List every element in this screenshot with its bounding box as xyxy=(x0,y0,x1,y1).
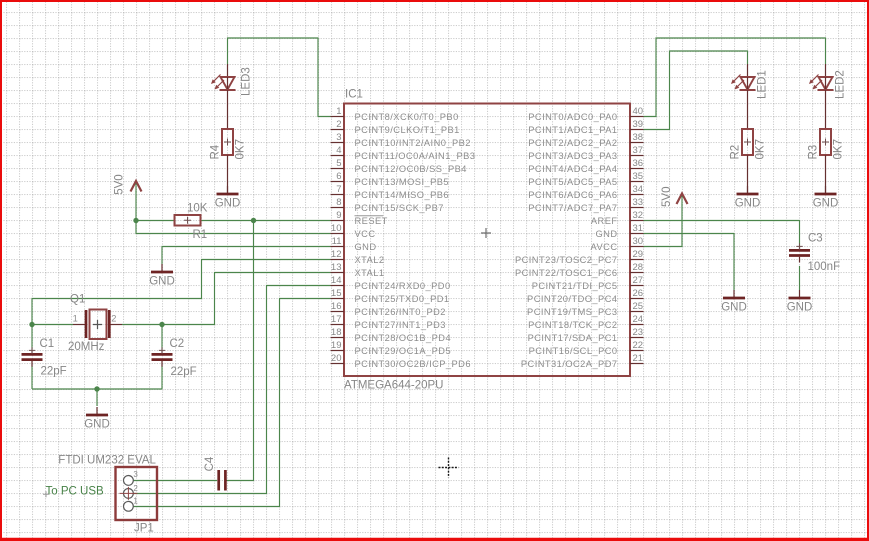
svg-text:2: 2 xyxy=(336,119,341,130)
IC1 pin 1 PCINT8/XCK0/T0_PB0 xyxy=(331,106,459,122)
svg-text:10K: 10K xyxy=(187,203,208,215)
svg-text:34: 34 xyxy=(633,184,644,195)
crystal Q1 20MHz xyxy=(68,294,122,354)
wire crystal pin2 to C2 xyxy=(122,324,162,326)
svg-text:PCINT9/CLKO/T1_PB1: PCINT9/CLKO/T1_PB1 xyxy=(355,125,460,135)
connector JP1 pin header xyxy=(116,467,158,535)
svg-text:PCINT22/TOSC1_PC6: PCINT22/TOSC1_PC6 xyxy=(515,268,618,278)
resistor R3 0K7 vertical xyxy=(808,129,845,194)
svg-text:C2: C2 xyxy=(170,338,185,350)
wire C1 top xyxy=(31,325,33,351)
svg-text:AREF: AREF xyxy=(591,216,618,226)
wire crystal ground rail xyxy=(32,388,162,390)
wire JP1 pin3 to C4 xyxy=(134,480,218,482)
svg-text:PCINT4/ADC4_PA4: PCINT4/ADC4_PA4 xyxy=(528,164,617,174)
IC1 pin 28 PCINT22/TOSC1_PC6 xyxy=(515,262,644,278)
svg-text:PCINT30/OC2B/ICP_PD6: PCINT30/OC2B/ICP_PD6 xyxy=(355,359,471,369)
svg-text:23: 23 xyxy=(633,327,644,338)
IC1 pin 29 PCINT23/TOSC2_PC7 xyxy=(515,249,644,265)
svg-text:JP1: JP1 xyxy=(134,523,154,535)
IC1 pin 24 PCINT18/TCK_PC2 xyxy=(528,314,643,330)
IC1 pin 10 VCC xyxy=(331,223,376,239)
svg-text:To PC USB: To PC USB xyxy=(46,486,104,498)
svg-text:PCINT21/TDI_PC5: PCINT21/TDI_PC5 xyxy=(532,281,618,291)
capacitor C4 horizontal xyxy=(204,456,227,490)
svg-text:36: 36 xyxy=(633,158,644,169)
IC1 pin 20 PCINT30/OC2B/ICP_PD6 xyxy=(331,353,471,369)
wire net PA1: IC1 pin39 to LED1 xyxy=(644,51,748,130)
svg-text:24: 24 xyxy=(633,314,644,325)
svg-text:PCINT6/ADC6_PA6: PCINT6/ADC6_PA6 xyxy=(528,190,617,200)
svg-text:1: 1 xyxy=(133,496,138,505)
svg-text:3: 3 xyxy=(336,132,341,143)
wire C2 top xyxy=(161,325,163,351)
IC1 pin 18 PCINT28/OC1B_PD4 xyxy=(331,327,452,343)
IC1 pin 33 PCINT7/ADC7_PA7 xyxy=(528,197,643,213)
IC1 pin 14 PCINT24/RXD0_PD0 xyxy=(331,275,451,291)
svg-text:PCINT16/SCL_PC0: PCINT16/SCL_PC0 xyxy=(529,346,618,356)
resistor R1 10K horizontal xyxy=(175,203,208,242)
svg-text:33: 33 xyxy=(633,197,644,208)
IC1 pin 27 PCINT21/TDI_PC5 xyxy=(532,275,644,291)
IC1 pin 2 PCINT9/CLKO/T1_PB1 xyxy=(331,119,460,135)
IC1 pin 21 PCINT31/OC2A_PD7 xyxy=(521,353,644,369)
IC1 pin 7 PCINT14/MISO_PB6 xyxy=(331,184,450,200)
svg-text:PCINT5/ADC5_PA5: PCINT5/ADC5_PA5 xyxy=(528,177,617,187)
svg-text:1: 1 xyxy=(73,314,79,324)
svg-text:17: 17 xyxy=(331,314,342,325)
wire net RESET: vertical to C4 xyxy=(227,221,254,481)
capacitor C3 100nF xyxy=(789,233,840,274)
IC1 pin 17 PCINT27/INT1_PD3 xyxy=(331,314,446,330)
svg-text:100nF: 100nF xyxy=(808,261,841,273)
resistor R4 0K7 vertical xyxy=(210,129,247,194)
svg-text:GND: GND xyxy=(735,198,761,210)
svg-text:15: 15 xyxy=(331,288,342,299)
supply symbol 5V0 xyxy=(661,187,688,207)
svg-text:PCINT8/XCK0/T0_PB0: PCINT8/XCK0/T0_PB0 xyxy=(355,112,459,122)
svg-text:38: 38 xyxy=(633,132,644,143)
svg-text:0K7: 0K7 xyxy=(235,139,247,159)
IC1 pin 32 AREF xyxy=(591,210,644,226)
wire net RESET: R1 to IC1 pin9 xyxy=(201,220,331,222)
svg-text:13: 13 xyxy=(331,262,342,273)
wire net XTAL1: IC1 pin13 to crystal pin2 xyxy=(162,273,331,325)
wire net RXD: IC1 pin14 to JP1 pin2 xyxy=(134,286,331,494)
wire net AREF: IC1 pin32 to C3 xyxy=(644,221,800,247)
svg-text:PCINT0/ADC0_PA0: PCINT0/ADC0_PA0 xyxy=(528,112,617,122)
IC1 pin 9 RESET xyxy=(331,210,388,226)
svg-text:IC1: IC1 xyxy=(345,89,363,101)
svg-text:R4: R4 xyxy=(210,144,222,159)
wire ground stem xyxy=(96,389,98,406)
svg-text:GND: GND xyxy=(721,302,747,314)
svg-text:PCINT10/INT2/AIN0_PB2: PCINT10/INT2/AIN0_PB2 xyxy=(355,138,471,148)
IC1 pin 26 PCINT20/TDO_PC4 xyxy=(527,288,643,304)
IC1 pin 36 PCINT4/ADC4_PA4 xyxy=(528,158,643,174)
IC1 pin 35 PCINT5/ADC5_PA5 xyxy=(528,171,643,187)
svg-text:C1: C1 xyxy=(40,338,55,350)
svg-text:FTDI UM232 EVAL: FTDI UM232 EVAL xyxy=(58,455,156,467)
LED LED2 xyxy=(809,64,847,129)
wire net RESET: 5V0 rail to R1 xyxy=(136,220,175,222)
IC1 pin 37 PCINT3/ADC3_PA3 xyxy=(528,145,643,161)
node XTAL2/C1 junction xyxy=(29,322,34,327)
svg-text:PCINT24/RXD0_PD0: PCINT24/RXD0_PD0 xyxy=(355,281,451,291)
svg-text:22pF: 22pF xyxy=(41,366,67,378)
supply symbol 5V0 xyxy=(113,174,141,194)
IC1 pin 39 PCINT1/ADC1_PA1 xyxy=(528,119,643,135)
svg-text:40: 40 xyxy=(633,106,644,117)
svg-text:R3: R3 xyxy=(808,145,820,160)
svg-text:PCINT29/OC1A_PD5: PCINT29/OC1A_PD5 xyxy=(355,346,452,356)
svg-text:PCINT26/INT0_PD2: PCINT26/INT0_PD2 xyxy=(355,307,446,317)
svg-text:25: 25 xyxy=(633,301,644,312)
svg-text:GND: GND xyxy=(787,302,813,314)
svg-text:16: 16 xyxy=(331,301,342,312)
svg-text:9: 9 xyxy=(336,210,341,221)
IC1 pin 12 XTAL2 xyxy=(331,249,385,265)
wire net VCC: junction to IC1 pin10 xyxy=(136,221,331,234)
IC1 pin 25 PCINT19/TMS_PC3 xyxy=(527,301,643,317)
IC1 pin 11 GND xyxy=(331,236,377,252)
svg-text:29: 29 xyxy=(633,249,644,260)
svg-text:PCINT18/TCK_PC2: PCINT18/TCK_PC2 xyxy=(528,320,617,330)
ground symbol at 227.5,194 xyxy=(215,186,241,210)
svg-text:28: 28 xyxy=(633,262,644,273)
wire net 5V0: supply arrow to junction xyxy=(135,191,137,221)
IC1 pin 30 AVCC xyxy=(591,236,644,252)
ground symbol at 799.5,298 xyxy=(787,290,813,314)
svg-text:RESET: RESET xyxy=(355,216,388,226)
ground symbol at 162,272 xyxy=(149,264,175,288)
svg-text:0K7: 0K7 xyxy=(833,139,845,159)
wire net GND: IC1 pin31 to ground xyxy=(644,234,735,291)
wire C3 bottom to ground xyxy=(799,266,801,290)
svg-text:22: 22 xyxy=(633,340,644,351)
svg-text:21: 21 xyxy=(633,353,644,364)
IC1 pin 31 GND xyxy=(595,223,643,239)
svg-text:PCINT17/SDA_PC1: PCINT17/SDA_PC1 xyxy=(528,333,618,343)
svg-text:C3: C3 xyxy=(808,233,823,245)
svg-text:R1: R1 xyxy=(193,229,208,241)
IC1 pin 19 PCINT29/OC1A_PD5 xyxy=(331,340,452,356)
svg-text:PCINT14/MISO_PB6: PCINT14/MISO_PB6 xyxy=(355,190,450,200)
svg-text:35: 35 xyxy=(633,171,644,182)
IC1 pin 34 PCINT6/ADC6_PA6 xyxy=(528,184,643,200)
wire net XTAL2: IC1 pin12 to crystal pin1 xyxy=(32,260,331,325)
svg-text:PCINT2/ADC2_PA2: PCINT2/ADC2_PA2 xyxy=(528,138,617,148)
svg-text:18: 18 xyxy=(331,327,342,338)
ground symbol at 734,298 xyxy=(721,290,747,314)
IC1 pin 13 XTAL1 xyxy=(331,262,385,278)
svg-text:PCINT20/TDO_PC4: PCINT20/TDO_PC4 xyxy=(527,294,617,304)
svg-text:R2: R2 xyxy=(730,145,742,160)
svg-text:20MHz: 20MHz xyxy=(68,341,105,353)
svg-text:XTAL1: XTAL1 xyxy=(355,268,385,278)
IC1 pin 6 PCINT13/MOSI_PB5 xyxy=(331,171,450,187)
svg-text:39: 39 xyxy=(633,119,644,130)
svg-text:32: 32 xyxy=(633,210,644,221)
svg-text:XTAL2: XTAL2 xyxy=(355,255,385,265)
svg-text:11: 11 xyxy=(332,236,342,247)
wire net PB0: IC1 pin1 to LED3 xyxy=(228,38,331,117)
wire crystal pin1 to C1 xyxy=(32,324,73,326)
IC1 pin 38 PCINT2/ADC2_PA2 xyxy=(528,132,643,148)
svg-text:PCINT3/ADC3_PA3: PCINT3/ADC3_PA3 xyxy=(528,151,617,161)
svg-text:GND: GND xyxy=(595,229,617,239)
svg-text:5V0: 5V0 xyxy=(661,187,673,207)
IC1 pin 8 PCINT15/SCK_PB7 xyxy=(331,197,444,213)
microcontroller IC1 ATMEGA644-20PU body xyxy=(344,89,630,392)
svg-text:1: 1 xyxy=(336,106,341,117)
svg-text:LED1: LED1 xyxy=(757,70,769,99)
svg-text:27: 27 xyxy=(633,275,644,286)
IC1 pin 15 PCINT25/TXD0_PD1 xyxy=(331,288,450,304)
node RESET junction xyxy=(251,218,256,223)
IC1 pin 3 PCINT10/INT2/AIN0_PB2 xyxy=(331,132,471,148)
IC1 pin 16 PCINT26/INT0_PD2 xyxy=(331,301,446,317)
svg-text:GND: GND xyxy=(215,198,241,210)
svg-text:PCINT25/TXD0_PD1: PCINT25/TXD0_PD1 xyxy=(355,294,450,304)
svg-text:4: 4 xyxy=(336,145,341,156)
svg-text:PCINT11/OC0A/AIN1_PB3: PCINT11/OC0A/AIN1_PB3 xyxy=(355,151,476,161)
svg-text:PCINT19/TMS_PC3: PCINT19/TMS_PC3 xyxy=(527,307,617,317)
node XTAL1/C2 junction xyxy=(159,322,164,327)
svg-text:GND: GND xyxy=(84,419,110,431)
IC1 pin 4 PCINT11/OC0A/AIN1_PB3 xyxy=(331,145,476,161)
svg-text:14: 14 xyxy=(331,275,342,286)
svg-text:7: 7 xyxy=(336,184,341,195)
resistor R2 0K7 vertical xyxy=(730,129,767,194)
capacitor C1 22pF xyxy=(22,338,67,378)
wire C1 bottom xyxy=(31,366,33,389)
svg-text:ATMEGA644-20PU: ATMEGA644-20PU xyxy=(344,380,444,392)
IC1 pin 5 PCINT12/OC0B/SS_PB4 xyxy=(331,158,467,174)
svg-text:37: 37 xyxy=(633,145,644,156)
svg-text:0K7: 0K7 xyxy=(755,139,767,159)
svg-text:PCINT1/ADC1_PA1: PCINT1/ADC1_PA1 xyxy=(528,125,617,135)
svg-text:GND: GND xyxy=(355,242,377,252)
svg-text:3: 3 xyxy=(133,470,138,479)
svg-text:10: 10 xyxy=(331,223,342,234)
IC1 pin 40 PCINT0/ADC0_PA0 xyxy=(528,106,643,122)
node 5V0/RESET junction xyxy=(133,218,138,223)
svg-text:VCC: VCC xyxy=(355,229,376,239)
LED LED1 xyxy=(731,64,769,129)
svg-text:19: 19 xyxy=(331,340,342,351)
svg-text:20: 20 xyxy=(331,353,342,364)
svg-text:PCINT23/TOSC2_PC7: PCINT23/TOSC2_PC7 xyxy=(515,255,618,265)
svg-text:PCINT27/INT1_PD3: PCINT27/INT1_PD3 xyxy=(355,320,446,330)
wire net 5V0: IC1 pin30 AVCC to supply arrow xyxy=(644,204,683,247)
svg-text:PCINT12/OC0B/SS_PB4: PCINT12/OC0B/SS_PB4 xyxy=(355,164,467,174)
svg-text:PCINT28/OC1B_PD4: PCINT28/OC1B_PD4 xyxy=(355,333,452,343)
svg-text:31: 31 xyxy=(633,223,644,234)
svg-text:C4: C4 xyxy=(204,456,216,471)
ground symbol at 825.5,194 xyxy=(813,186,839,210)
ground symbol at 747.5,194 xyxy=(735,186,761,210)
svg-text:LED2: LED2 xyxy=(835,70,847,99)
IC1 pin 22 PCINT16/SCL_PC0 xyxy=(529,340,644,356)
svg-text:GND: GND xyxy=(149,276,175,288)
svg-text:PCINT7/ADC7_PA7: PCINT7/ADC7_PA7 xyxy=(528,203,617,213)
LED LED3 xyxy=(211,64,253,129)
capacitor C2 22pF xyxy=(152,338,197,378)
svg-text:GND: GND xyxy=(813,198,839,210)
IC1 pin 23 PCINT17/SDA_PC1 xyxy=(528,327,644,343)
svg-text:5: 5 xyxy=(336,158,341,169)
svg-text:LED3: LED3 xyxy=(241,67,253,96)
svg-text:30: 30 xyxy=(633,236,644,247)
svg-text:6: 6 xyxy=(336,171,341,182)
svg-text:PCINT13/MOSI_PB5: PCINT13/MOSI_PB5 xyxy=(355,177,450,187)
svg-text:26: 26 xyxy=(633,288,644,299)
ground symbol at 97,415 xyxy=(84,407,110,431)
svg-text:PCINT15/SCK_PB7: PCINT15/SCK_PB7 xyxy=(355,203,444,213)
svg-text:Q1: Q1 xyxy=(70,294,85,306)
svg-text:2: 2 xyxy=(111,314,117,324)
svg-text:PCINT31/OC2A_PD7: PCINT31/OC2A_PD7 xyxy=(521,359,618,369)
svg-text:2: 2 xyxy=(133,484,138,493)
svg-text:5V0: 5V0 xyxy=(113,174,125,194)
wire net TXD: IC1 pin15 to JP1 pin1 xyxy=(134,299,331,507)
wire net PA0: IC1 pin40 to LED2 xyxy=(644,38,826,117)
cursor crosshair xyxy=(439,458,459,478)
svg-text:AVCC: AVCC xyxy=(591,242,618,252)
node crystal GND junction xyxy=(94,386,99,391)
wire net GND: IC1 pin11 to ground xyxy=(162,247,331,265)
svg-text:8: 8 xyxy=(336,197,341,208)
wire C2 bottom xyxy=(161,366,163,389)
svg-text:12: 12 xyxy=(331,249,342,260)
svg-text:22pF: 22pF xyxy=(171,366,197,378)
